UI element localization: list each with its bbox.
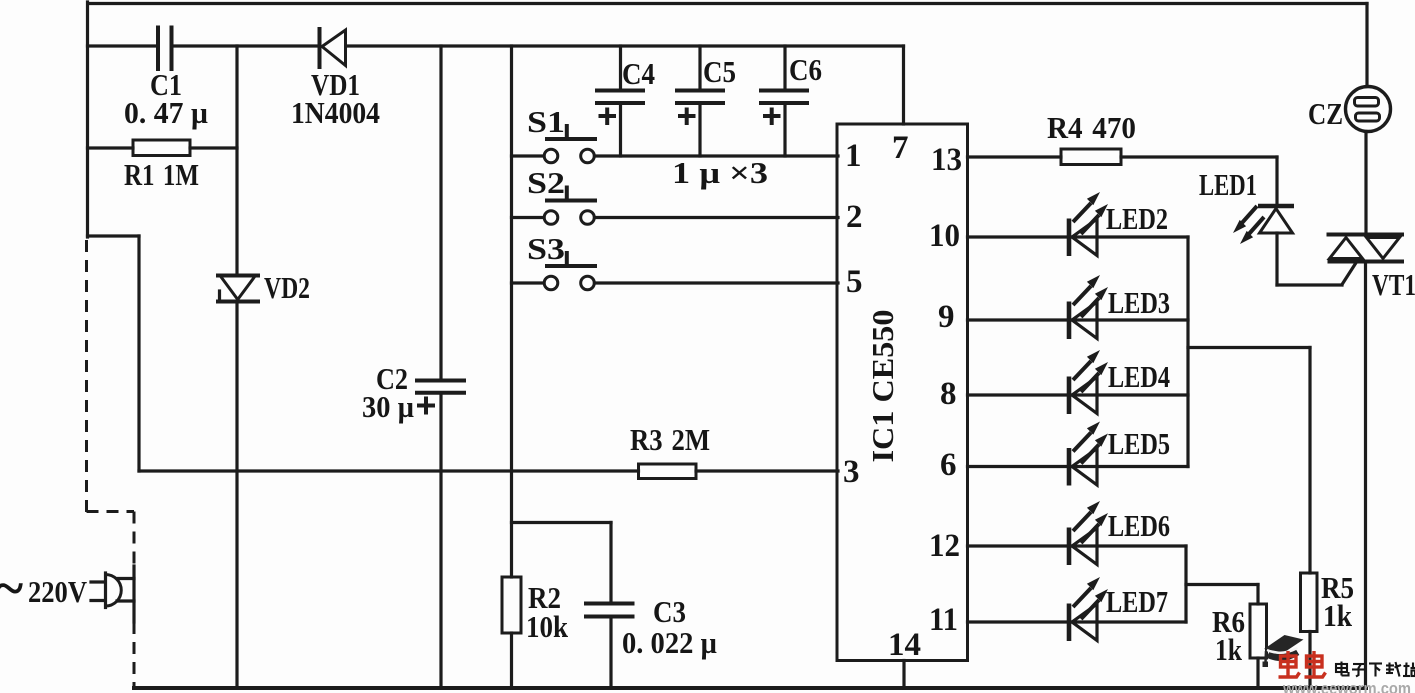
wire: branch to R5 riser (1188, 346, 1310, 349)
svg-text:C3: C3 (653, 594, 686, 629)
wire: vertical below R2 to bottom rail (510, 633, 513, 688)
wire: solid segment beside plug (132, 566, 135, 622)
svg-text:5: 5 (846, 264, 863, 300)
zener diode VD2 (218, 276, 258, 302)
wire: dashed mains lead left vertical (85, 240, 88, 513)
wire: IC pin 8 row through LED4 (968, 393, 1189, 396)
svg-text:7: 7 (892, 130, 909, 166)
wire: bottom ground rail (134, 686, 1366, 690)
svg-text:LED3: LED3 (1108, 285, 1170, 320)
wire: branch from switch rail to C3 (512, 521, 612, 524)
svg-text:0. 022 µ: 0. 022 µ (622, 625, 717, 660)
diode VD1 (1N4004) (320, 29, 346, 67)
wire: LED1 anode down (1275, 233, 1278, 285)
svg-text:10k: 10k (526, 609, 569, 644)
svg-text:C4: C4 (622, 56, 655, 91)
watermark graduation cap icon (1263, 635, 1304, 667)
svg-text:8: 8 (940, 376, 957, 412)
wire: IC pin 12 row through LED6 (968, 544, 1187, 547)
svg-text:9: 9 (938, 299, 955, 335)
wire: R6 top lead (1256, 585, 1259, 605)
wire: vertical from C1/VD1 junction down to VD2 (235, 46, 238, 276)
wire: pin3 / R3 row from x=139 to R3 body (139, 469, 639, 472)
svg-text:S3: S3 (527, 231, 565, 266)
svg-text:6: 6 (940, 447, 957, 483)
LED4 (1069, 350, 1108, 414)
wire: triac MT1 down to bottom rail (1364, 262, 1367, 689)
plus polarity mark of C5 (680, 110, 694, 124)
wire: IC pin 11 row through LED7 (968, 620, 1187, 623)
svg-text:VD2: VD2 (264, 270, 310, 305)
watermark chongchong red characters (1279, 651, 1326, 678)
wire: R3 to IC pin 3 (696, 469, 838, 472)
wire: top horizontal supply wire segment (border to C1) (88, 44, 157, 47)
svg-text:30 µ: 30 µ (362, 389, 414, 424)
wire: R5 bottom to rail (1308, 632, 1311, 689)
svg-text:LED7: LED7 (1106, 584, 1168, 619)
wire: gate run to triac (1277, 283, 1342, 286)
plus polarity mark of C6 (765, 110, 779, 124)
resistor R6 (1250, 604, 1267, 658)
wire: pin 14 drop to bottom rail (902, 661, 905, 689)
wire: vertical from VD2 cathode down to bottom rail (235, 303, 238, 688)
plus polarity mark of C4 (601, 110, 615, 124)
wire: R4 to LED1 corner (1121, 155, 1277, 158)
svg-text:1k: 1k (1215, 632, 1243, 667)
LED6 (1069, 501, 1108, 565)
wire: vertical x=441 from C2 down to bottom rail (439, 395, 442, 689)
wire: vertical x=441 from top wire down to C2 (439, 46, 442, 380)
wire: common vertical joining LED2-LED5 (1186, 237, 1189, 467)
wire: dashed mains lead down to plug (133, 512, 136, 567)
wire: IC pin 6 row through LED5 (968, 465, 1189, 468)
wire: pin 7 riser to top supply wire (902, 46, 905, 124)
svg-text:~: ~ (0, 558, 23, 618)
triac VT1 (1327, 235, 1405, 262)
svg-text:www.eeworm.com: www.eeworm.com (1282, 679, 1411, 693)
LED7 (1069, 577, 1108, 641)
svg-text:1: 1 (845, 138, 862, 174)
svg-text:1N4004: 1N4004 (291, 95, 380, 130)
svg-text:C6: C6 (789, 52, 822, 87)
wire: left border vertical (solid upper part) (86, 2, 89, 237)
wire: R5 riser vertical (1308, 348, 1311, 574)
switch S2 (512, 188, 596, 225)
capacitor C6 (electrolytic) (761, 46, 807, 156)
svg-text:LED4: LED4 (1108, 359, 1170, 394)
svg-text:LED1: LED1 (1199, 167, 1257, 202)
svg-text:2: 2 (846, 199, 863, 235)
svg-text:3: 3 (843, 454, 860, 490)
resistor R3 (639, 464, 697, 479)
capacitor C3 (586, 604, 633, 617)
wire: S1 to IC pin 1 (595, 154, 839, 157)
wire: S2 to IC pin 2 (595, 216, 839, 219)
op-amp U1: IC1 CE550 box (837, 124, 968, 661)
svg-text:220V: 220V (28, 574, 88, 609)
wire: top supply wire C1 to VD1 (173, 44, 318, 47)
svg-text:11: 11 (929, 602, 958, 638)
socket CZ (1346, 87, 1391, 132)
svg-text:10: 10 (929, 218, 960, 254)
capacitor C2 (417, 381, 464, 393)
svg-text:12: 12 (929, 528, 960, 564)
resistor R2 (502, 577, 521, 633)
svg-text:C5: C5 (703, 54, 736, 89)
wire: S3 to IC pin 5 (595, 281, 839, 284)
wire: corner stub from left border to inner vertical (88, 234, 140, 237)
switch S1 (512, 126, 596, 163)
svg-text:VT1: VT1 (1372, 267, 1415, 302)
resistor R4 (1061, 149, 1121, 165)
wire: IC pin 13 to R4 (968, 155, 1062, 158)
wire: CZ to triac MT2 (1364, 132, 1367, 235)
svg-text:S1: S1 (527, 104, 565, 139)
wire: top border frame (88, 2, 1367, 5)
svg-text:14: 14 (888, 627, 921, 663)
capacitor C4 (electrolytic) (597, 46, 643, 156)
svg-text:1k: 1k (1323, 598, 1353, 633)
wire: C3 top lead (609, 523, 612, 602)
svg-text:R4 470: R4 470 (1047, 110, 1136, 145)
wire: vertical down to LED1 (1275, 157, 1278, 204)
LED5 (1069, 422, 1108, 486)
LED1 (infrared emitting diode, pointing up) (1233, 206, 1294, 244)
svg-text:LED2: LED2 (1106, 201, 1168, 236)
capacitor C1 (158, 28, 172, 70)
svg-text:0. 47 µ: 0. 47 µ (124, 95, 208, 130)
resistor R1 (88, 140, 238, 156)
wire: IC pin 9 row through LED3 (968, 318, 1189, 321)
svg-text:R1 1M: R1 1M (124, 157, 199, 192)
LED2 (1069, 192, 1108, 256)
wire: R6 bottom to rail (1256, 658, 1259, 688)
wire: top-right corner drop to socket CZ (1365, 4, 1368, 87)
svg-text:R3 2M: R3 2M (630, 422, 710, 457)
svg-text:IC1 CE550: IC1 CE550 (865, 310, 900, 463)
wire: branch to R6 (1186, 583, 1258, 586)
wire: gate diagonal into triac (1342, 262, 1357, 285)
plus polarity mark of C2 (419, 399, 433, 413)
wire: top supply wire VD1 to pin7 riser (346, 44, 904, 47)
svg-text:CZ: CZ (1308, 96, 1343, 131)
capacitor C5 (electrolytic) (677, 46, 723, 156)
wire: dashed mains lead horizontal (87, 510, 135, 513)
wire: IC pin 10 row through LED2 (968, 235, 1189, 238)
mains plug symbol (91, 573, 134, 608)
svg-text:S2: S2 (527, 165, 565, 200)
wire: dashed mains lead below plug to bottom rail (133, 622, 136, 688)
wire: common vertical joining LED6-LED7 (1184, 546, 1187, 622)
resistor R5 (1301, 573, 1318, 632)
wire: C3 bottom lead to rail (609, 619, 612, 688)
wire: inner vertical x=139 down to pin3 row (137, 236, 140, 471)
switch S3 (512, 253, 596, 290)
watermark site name glyphs (1336, 662, 1415, 677)
LED3 (1069, 275, 1108, 339)
svg-text:1 µ ×3: 1 µ ×3 (672, 155, 768, 190)
svg-text:13: 13 (931, 142, 962, 178)
svg-text:LED6: LED6 (1108, 508, 1170, 543)
svg-text:LED5: LED5 (1108, 426, 1170, 461)
wire: switch rail vertical x=511 from top wire to R2 (510, 46, 513, 577)
